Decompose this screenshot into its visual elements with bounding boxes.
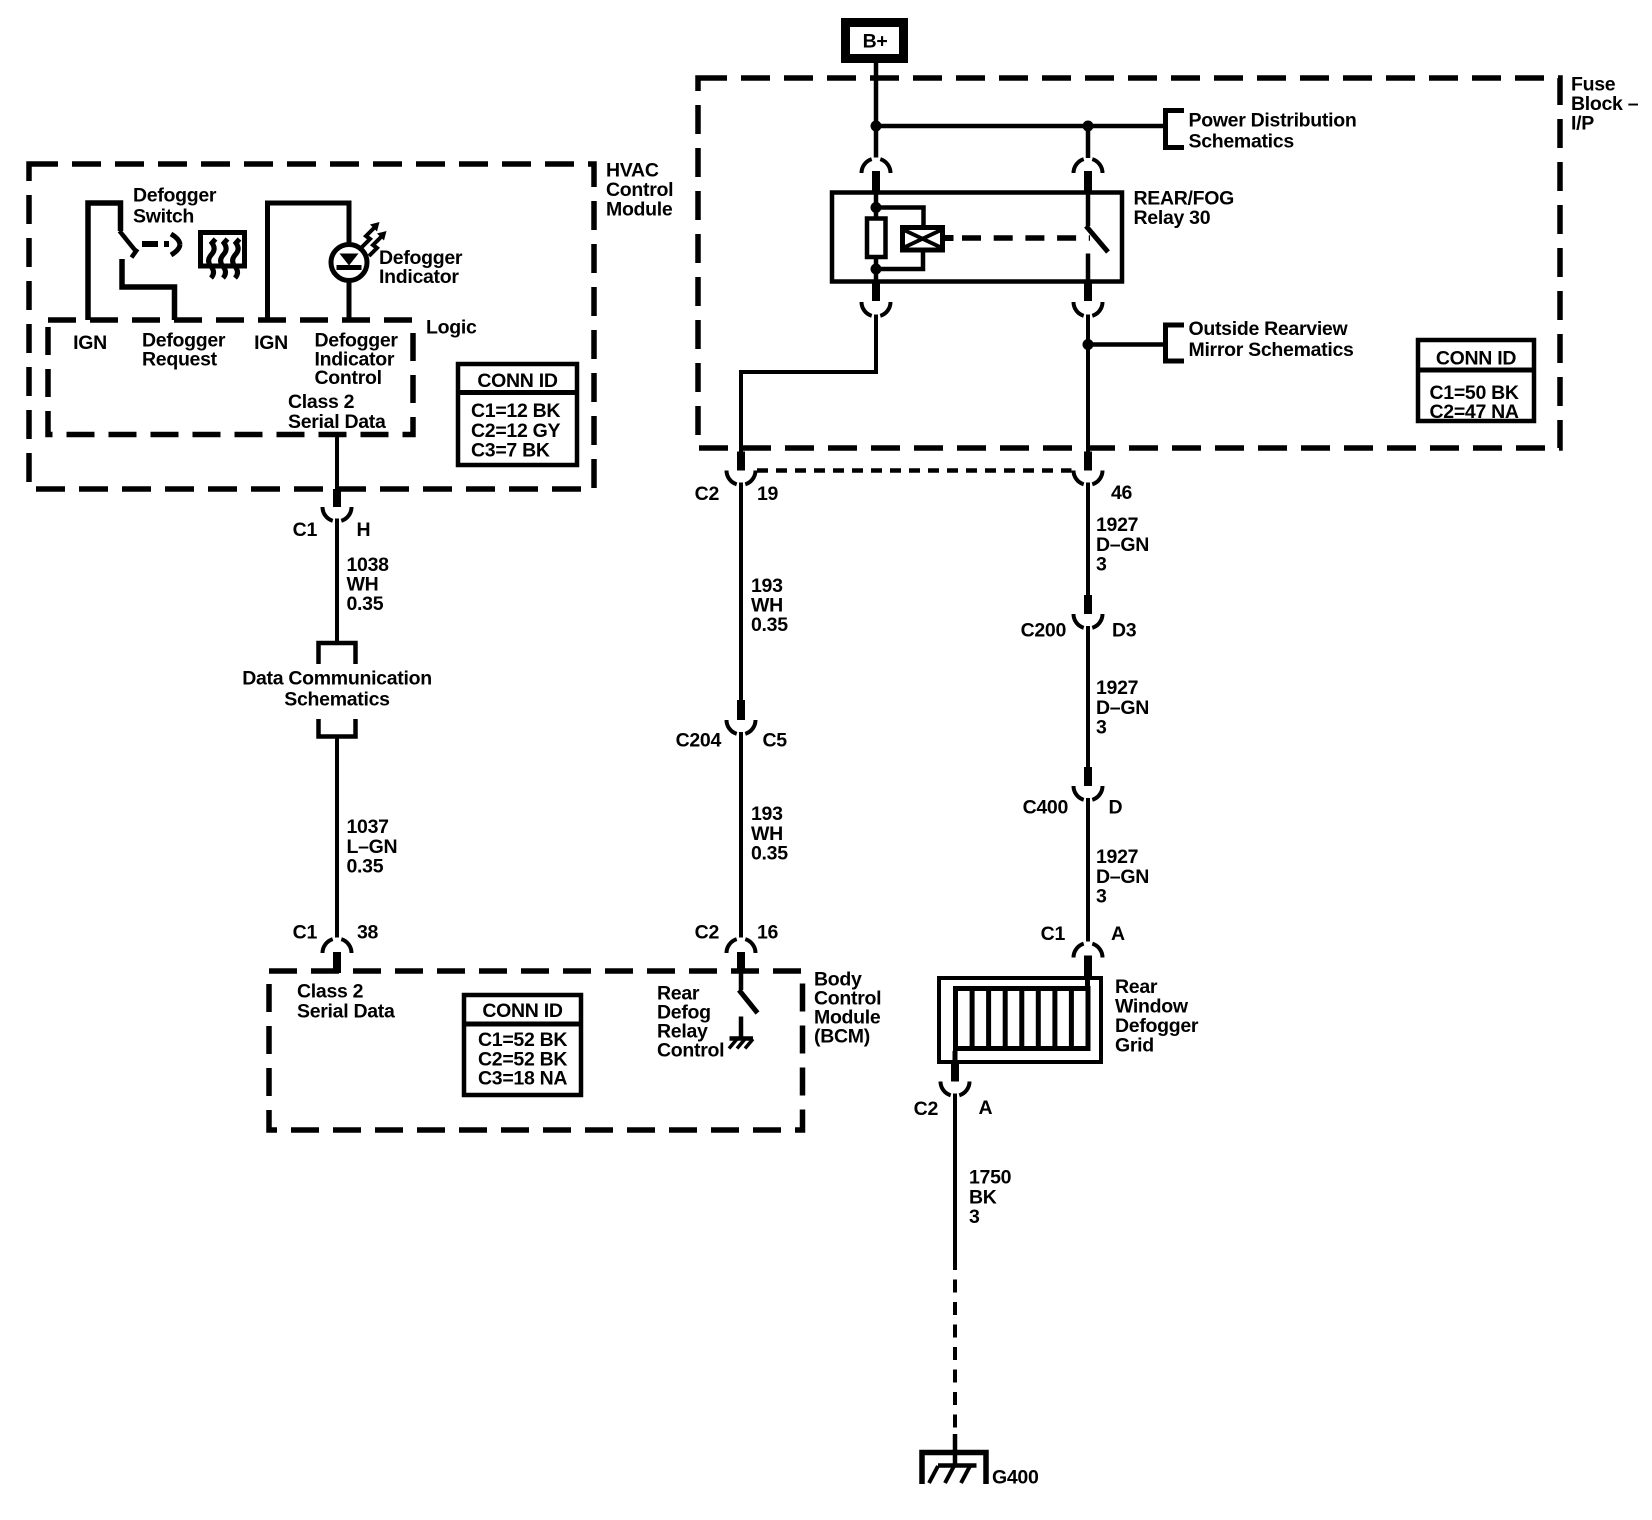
svg-text:Grid: Grid <box>1115 1035 1154 1057</box>
relay coil output cup <box>862 302 891 316</box>
svg-text:C1: C1 <box>1041 923 1066 945</box>
svg-text:Indicator: Indicator <box>379 266 459 288</box>
svg-text:Serial Data: Serial Data <box>297 1001 395 1023</box>
svg-text:B+: B+ <box>863 31 888 53</box>
svg-text:D3: D3 <box>1112 620 1137 642</box>
svg-text:C5: C5 <box>763 730 788 752</box>
grid entry wire <box>1085 976 1090 988</box>
off-page bracket upper <box>319 643 356 664</box>
connector C200/D3 cup <box>1074 614 1103 628</box>
junction dot <box>871 264 882 275</box>
relay coil output cap <box>872 282 880 302</box>
connector C2/19 cup <box>727 471 756 485</box>
wire into ground <box>953 1434 958 1466</box>
svg-text:C3=18 NA: C3=18 NA <box>478 1068 567 1090</box>
heater icon (defogger grid symbol) <box>201 233 245 279</box>
label Data Communication Schematics <box>242 668 432 711</box>
svg-text:IGN: IGN <box>73 332 107 354</box>
svg-text:46: 46 <box>1111 482 1133 504</box>
svg-text:3: 3 <box>1096 717 1107 739</box>
connector C1/38 cup <box>322 939 351 953</box>
relay switch pin cup <box>1074 159 1103 173</box>
svg-text:C2=47 NA: C2=47 NA <box>1430 401 1519 423</box>
switch S1 Defogger Switch <box>88 203 175 320</box>
pin label Class 2 Serial Data <box>288 391 386 433</box>
relay coil pin cap <box>872 171 880 193</box>
svg-text:C200: C200 <box>1021 620 1067 642</box>
svg-text:Schematics: Schematics <box>1189 131 1295 153</box>
wire label 1927 D-GN 3 <box>1096 677 1149 739</box>
svg-text:C204: C204 <box>676 730 722 752</box>
label Class 2 Serial Data (BCM) <box>297 981 395 1023</box>
connector C2/16 terminal cap <box>737 952 745 973</box>
connector 46 terminal cap <box>1084 452 1092 471</box>
relay resistor branch wire <box>874 193 879 219</box>
svg-text:Control: Control <box>315 367 382 389</box>
svg-text:Request: Request <box>142 349 218 371</box>
connector C400/D terminal cap <box>1084 767 1092 786</box>
actuation dashed link <box>142 234 180 255</box>
wire to BCM <box>335 739 339 938</box>
relay switch output cup <box>1074 302 1103 316</box>
svg-text:C3=7 BK: C3=7 BK <box>471 440 550 462</box>
svg-text:C400: C400 <box>1023 797 1069 819</box>
defogger grid element <box>956 988 1089 1049</box>
connector C200/D3 terminal cap <box>1084 595 1092 614</box>
wire to BCM <box>739 732 743 938</box>
wire B+ to rail <box>874 63 879 158</box>
svg-text:CONN ID: CONN ID <box>477 370 557 392</box>
wire label 1750 BK 3 <box>969 1167 1012 1229</box>
wire C400 to grid <box>1086 798 1090 942</box>
svg-text:CONN ID: CONN ID <box>482 1000 562 1022</box>
connector C400/D cup <box>1074 786 1103 800</box>
connector body dotted line <box>757 468 1072 473</box>
relay switch lower contact <box>1086 254 1091 282</box>
relay switch pin cap <box>1084 171 1092 193</box>
label HVAC Control Module <box>606 160 673 221</box>
connector C2/A terminal cap <box>951 1064 959 1082</box>
Fuse Block - I/P box <box>698 78 1560 448</box>
svg-text:Power Distribution: Power Distribution <box>1189 110 1357 132</box>
junction dot <box>871 121 882 132</box>
connector C1/38 terminal cap <box>333 952 341 973</box>
svg-text:A: A <box>979 1097 993 1119</box>
svg-text:C2: C2 <box>914 1098 939 1120</box>
svg-text:19: 19 <box>757 483 779 505</box>
svg-text:Class 2: Class 2 <box>297 981 364 1003</box>
wire resistor to relay bottom <box>874 257 879 282</box>
svg-text:C2: C2 <box>695 922 720 944</box>
svg-text:193: 193 <box>751 803 783 825</box>
svg-text:3: 3 <box>969 1206 980 1228</box>
svg-text:C1: C1 <box>293 519 318 541</box>
svg-text:CONN ID: CONN ID <box>1436 348 1516 370</box>
svg-text:(BCM): (BCM) <box>814 1026 870 1048</box>
svg-text:Schematics: Schematics <box>284 689 390 711</box>
svg-text:Logic: Logic <box>426 317 477 339</box>
svg-text:1927: 1927 <box>1096 846 1138 868</box>
label REAR/FOG Relay 30 <box>1134 188 1235 230</box>
svg-text:C1: C1 <box>293 922 318 944</box>
CONN ID table (fuse block) <box>1418 340 1534 423</box>
svg-text:Module: Module <box>606 199 673 221</box>
svg-text:1927: 1927 <box>1096 677 1138 699</box>
CONN ID table (BCM) <box>464 995 581 1095</box>
svg-text:0.35: 0.35 <box>347 593 384 615</box>
connector 46 cup <box>1074 471 1103 485</box>
pin label Defogger Request <box>142 330 226 371</box>
svg-text:A: A <box>1111 923 1125 945</box>
svg-text:Switch: Switch <box>133 206 194 228</box>
relay coil (box with X) <box>903 228 943 251</box>
svg-text:Data Communication: Data Communication <box>242 668 432 690</box>
wire label 1927 D-GN 3 <box>1096 846 1149 908</box>
wire C200 to C400 <box>1086 626 1090 767</box>
HVAC Control Module box <box>29 164 594 489</box>
connector C204/C5 terminal cap <box>737 700 745 720</box>
relay switch lever <box>1086 226 1108 252</box>
Body Control Module box <box>269 971 803 1130</box>
wire rail to relay switch pin <box>1086 126 1091 158</box>
relay K1 REAR/FOG Relay 30 box <box>832 193 1122 282</box>
svg-text:Defogger: Defogger <box>133 185 217 207</box>
svg-text:1750: 1750 <box>969 1167 1012 1189</box>
wire to C204 <box>739 483 743 701</box>
LED loop wiring <box>268 203 350 320</box>
connector C2/16 cup <box>727 939 756 953</box>
wire label 193 WH 0.35 <box>751 803 788 865</box>
CONN ID table (HVAC) <box>458 364 577 465</box>
pin label Defogger Indicator Control <box>315 330 399 390</box>
svg-text:Serial Data: Serial Data <box>288 411 386 433</box>
off-page bracket Power Distribution <box>1166 111 1185 148</box>
off-page bracket lower <box>319 719 356 737</box>
svg-text:I/P: I/P <box>1571 113 1594 135</box>
svg-text:16: 16 <box>757 922 779 944</box>
power distribution rail <box>876 124 1164 129</box>
power symbol B+ <box>846 23 904 59</box>
coil actuation stub <box>943 235 954 241</box>
connector C2/19 terminal cap <box>737 452 745 471</box>
label Body Control Module (BCM) <box>814 969 881 1048</box>
switch (BCM internal driver) <box>739 973 758 1014</box>
wire relay to fuse block exit <box>741 315 876 452</box>
junction dot <box>1083 121 1094 132</box>
label Defogger Indicator <box>379 247 463 288</box>
connector C1/A terminal cap <box>1084 956 1092 977</box>
svg-text:0.35: 0.35 <box>751 614 788 636</box>
label Rear Defog Relay Control <box>657 983 724 1062</box>
svg-text:Outside Rearview: Outside Rearview <box>1189 318 1349 340</box>
connector C2/A cup <box>941 1082 970 1096</box>
Logic box <box>48 320 413 435</box>
LED emission arrows <box>362 222 387 256</box>
svg-text:1927: 1927 <box>1096 514 1138 536</box>
label Outside Rearview Mirror Schematics <box>1189 318 1355 361</box>
label Defogger Switch <box>133 185 217 228</box>
svg-text:IGN: IGN <box>254 332 288 354</box>
svg-text:Mirror Schematics: Mirror Schematics <box>1189 339 1355 361</box>
internal ground (BCM) <box>729 1017 753 1049</box>
svg-text:Control: Control <box>657 1040 724 1062</box>
wire to data communication <box>335 519 339 642</box>
ground G400 <box>922 1453 986 1485</box>
wire 46 to C200 <box>1086 483 1090 596</box>
relay switch fixed contact <box>1086 193 1091 227</box>
LED D1 Defogger Indicator <box>331 245 367 281</box>
wire label 1037 L-GN 0.35 <box>347 816 398 878</box>
svg-text:H: H <box>357 519 371 541</box>
junction dot <box>1083 339 1094 350</box>
connector C204/C5 cup <box>727 720 756 734</box>
connector C1/H cup <box>322 507 351 521</box>
wire label 193 WH 0.35 <box>751 575 788 636</box>
wire label 1038 WH 0.35 <box>347 554 390 615</box>
label Rear Window Defogger Grid <box>1115 976 1199 1057</box>
relay switch output cap <box>1084 282 1092 302</box>
svg-text:0.35: 0.35 <box>751 843 788 865</box>
label Power Distribution Schematics <box>1189 110 1357 153</box>
grid exit wire <box>953 1051 958 1064</box>
wire logic box to connector C1 <box>335 435 339 491</box>
svg-text:Class 2: Class 2 <box>288 391 355 413</box>
svg-text:1037: 1037 <box>347 816 389 838</box>
defogger grid outer box <box>939 978 1101 1062</box>
svg-text:3: 3 <box>1096 886 1107 908</box>
svg-text:C2: C2 <box>695 483 720 505</box>
connector C1/A cup <box>1074 944 1103 958</box>
resistor (relay) <box>867 219 886 258</box>
wire label 1927 D-GN 3 <box>1096 514 1149 576</box>
wire coil to junction <box>876 250 923 269</box>
connector C1/H terminal cap <box>333 489 341 507</box>
svg-text:Relay 30: Relay 30 <box>1134 207 1211 229</box>
svg-text:0.35: 0.35 <box>347 856 384 878</box>
svg-text:C1=12 BK: C1=12 BK <box>471 400 560 422</box>
svg-text:G400: G400 <box>992 1467 1039 1489</box>
coil actuation dashed line <box>962 235 1090 241</box>
relay coil pin cup <box>862 159 891 173</box>
junction dot <box>871 202 882 213</box>
relay coil branch wire <box>876 208 924 228</box>
dashed ground wire <box>953 1257 957 1432</box>
svg-text:D: D <box>1109 797 1123 819</box>
mirror schematics rail <box>1088 342 1164 347</box>
svg-text:3: 3 <box>1096 554 1107 576</box>
off-page bracket Outside Rearview <box>1166 325 1185 361</box>
svg-text:38: 38 <box>357 922 379 944</box>
wire grid to splice <box>953 1094 957 1258</box>
wire relay switch to fuse exit <box>1086 315 1090 452</box>
label Fuse Block - I/P <box>1571 74 1639 135</box>
